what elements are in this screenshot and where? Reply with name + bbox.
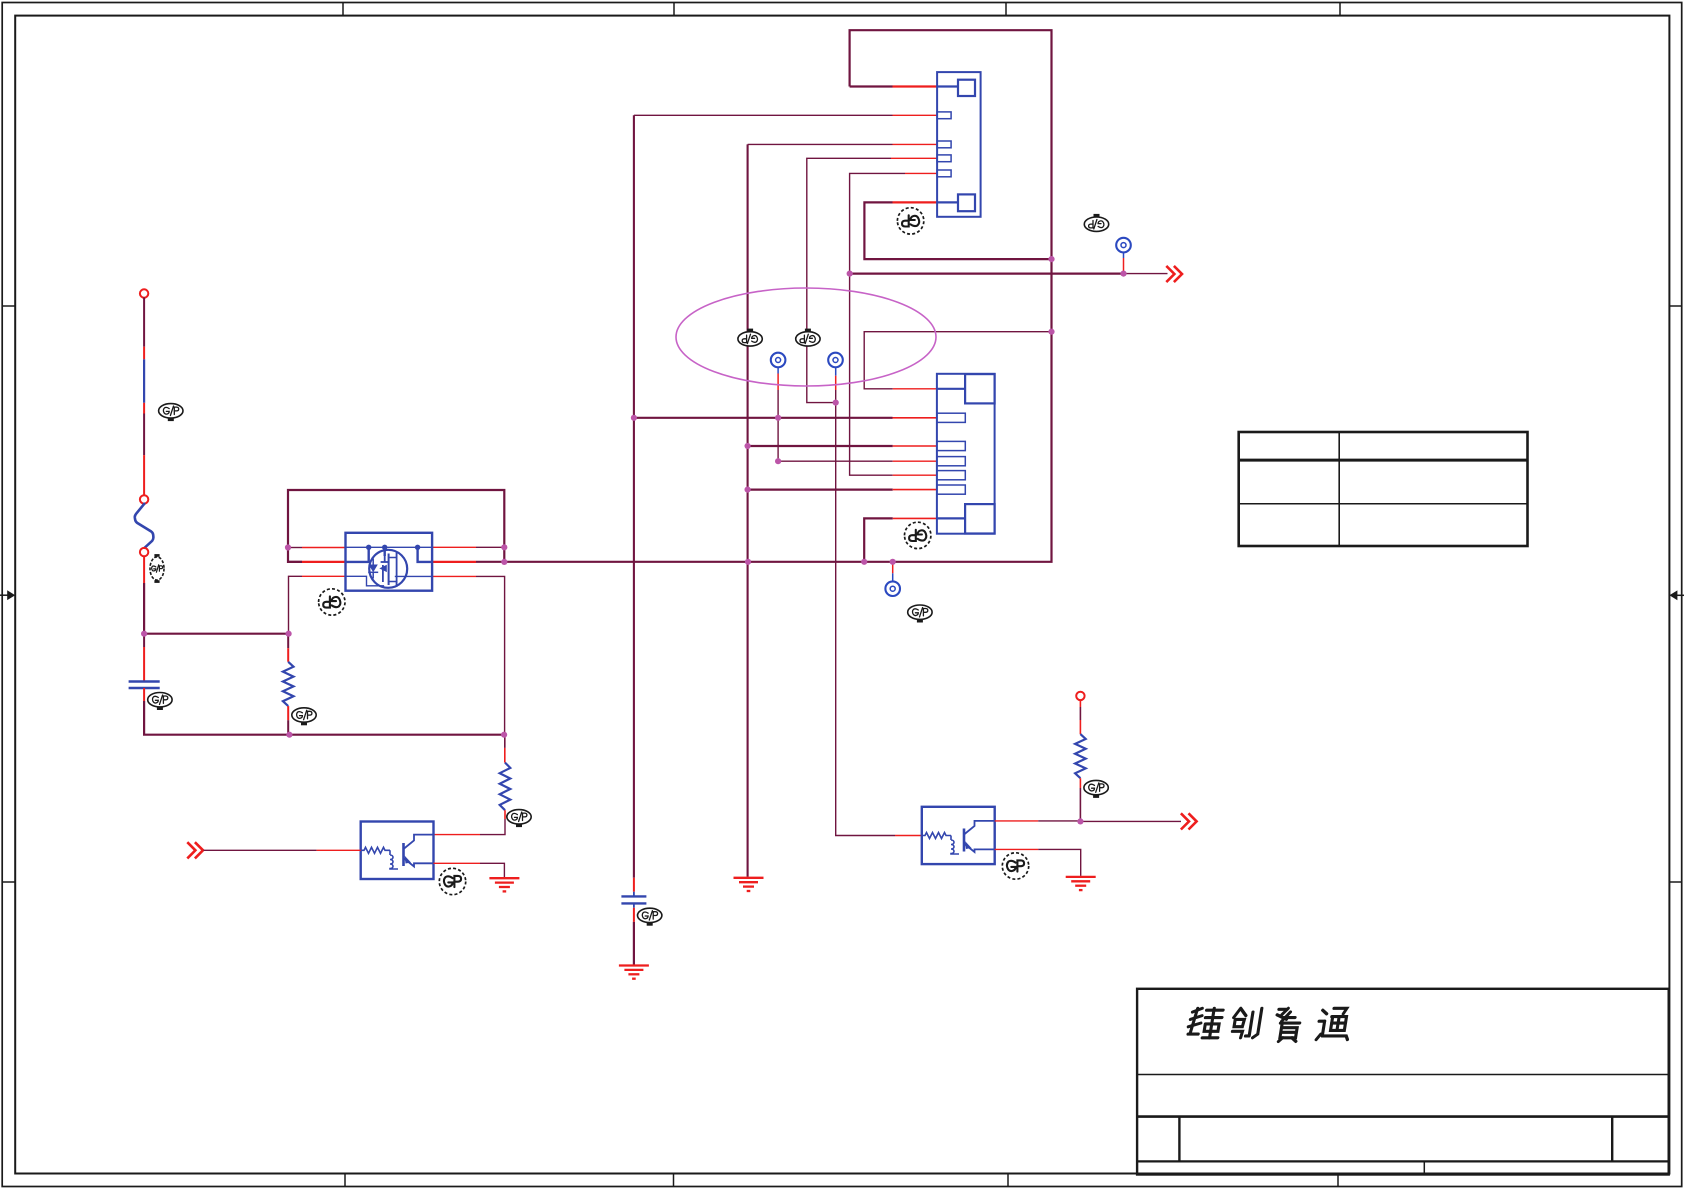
test point TP2 [828,353,843,368]
wire J2 pin3 net y=446 [748,445,893,447]
wire capacitor C1 top stub [143,634,145,647]
wire pin stub J2 pin5 (red) [893,474,937,476]
node right bus / J2 pin1 loop [1048,329,1054,335]
wire output net 2 [1080,820,1181,822]
transistor Q1 (mosfet module) [346,533,433,591]
label G/P near TP3 [1084,214,1108,232]
wire pin stub J2 pin7 (red) [893,517,937,519]
ground U1 emitter [489,878,519,891]
label G/P vertical [150,554,164,583]
wire U2 collector to node [1038,820,1080,822]
zone tick top 1 [342,3,344,16]
node mosfet row1 right [501,544,507,550]
wire resistor R1 bottom stub [287,706,289,720]
wire pin stub mosfet row2 right (red) [432,561,476,563]
label GP optocoupler U2 [1002,853,1028,879]
wire TP2 node down to optocoupler U2 input [836,390,895,836]
off-page input arrow [187,842,203,858]
wire vertical bus x=748 [747,144,749,876]
wire capacitor C2 top stub [633,878,635,892]
zone tick bottom 2 [673,1174,675,1187]
resistor R3 [1075,734,1086,778]
wire pin stub J2 pin3 (red) [893,445,937,447]
zone tick top 4 [1339,3,1341,16]
node R2 / bus y=735 [501,732,507,738]
ground net x=748 [734,878,764,891]
zone tick bottom 1 [344,1174,346,1187]
node J2 pin2 / bus x=634 [631,415,637,421]
wire mosfet row2 left [288,561,302,563]
mid-sheet arrow right border [1669,590,1684,600]
wire resistor R1 top stub [287,634,289,649]
wire test point 2 stub [835,367,837,375]
node J2 pin3 / bus x=748 [745,443,751,449]
wire output net 1 tail [1124,273,1168,275]
node R1 / bus y=735 [286,732,292,738]
wire resistor R2 top stub [504,735,506,748]
label G/P capacitor C2 [638,908,662,926]
wire resistor R2 bottom stub [504,810,506,819]
label G/P left column [159,404,183,422]
wire mosfet row3 left down [289,576,303,633]
terminal T1 [140,289,148,297]
node row y=632 left [141,631,147,637]
wire left column top [143,297,145,346]
wire input net to U1 [204,849,317,851]
resistor R1 [283,662,294,706]
wire upper loop and right bus down to horizontal bus [476,30,1052,562]
wire pin stub J2 pin6 (red) [893,489,937,491]
wire mosfet row1 left [288,547,302,549]
node TP3 / output net 1 [1120,271,1126,277]
label G/P resistor R1 [292,708,316,726]
test point TP4 [885,581,900,596]
wire J2 pin4 net y=461 [778,460,893,462]
node TP1 / net y=418 [775,415,781,421]
wire U1 emitter to ground [480,863,504,877]
wire J2 pin6 net y=490 [748,489,893,491]
title block [1137,989,1669,1175]
zone tick left 1 [2,305,15,307]
label G/P on net x=807 [796,329,820,347]
zone tick left 2 [2,881,15,883]
wire J2 pin1 loop to right bus [864,332,1051,389]
node J2 pin6 / bus x=748 [745,487,751,493]
label G/P capacitor C1 [148,693,172,711]
optocoupler U1 [361,822,434,880]
wire pin stub U2 emitter (red) [995,848,1038,850]
wire pin stub U1 input (red) [317,849,361,851]
label G/P resistor R2 [507,810,531,828]
connector J2 [937,374,995,534]
node TP1 chain / J2 pin4 net [775,458,781,464]
resistor R2 [500,763,511,811]
wire junction row y=632 [144,633,289,635]
label GP optocoupler U1 [439,868,465,894]
label GP mosfet Q1 [319,589,345,615]
wire pin stub U2 collector (red) [995,820,1038,822]
wire pin stub mosfet row1 right (red) [432,546,476,548]
wire J1 pin4 down to node at test point 2 [807,158,891,402]
wire J1 pin5 down to J2 pin5 [850,173,905,475]
wire loop around mosfet [288,490,504,562]
revision table [1239,432,1528,546]
label G/P resistor R3 [1084,780,1108,798]
wire T3 down to junction [143,556,145,583]
ground U2 emitter [1066,877,1096,890]
wire R2 to optocoupler U1 collector [480,819,505,835]
ground capacitor C2 [619,966,649,979]
zone tick bottom 3 [1007,1174,1009,1187]
zone tick right 2 [1669,881,1682,883]
wire test point 4 stub [892,563,894,573]
node row y=632 right [286,631,292,637]
wire bottom bus y=735 [144,701,504,735]
wire pin stub mosfet row3 right (red) [432,575,476,577]
wire resistor R3 bottom stub [1079,778,1081,788]
wire capacitor C1 bottom stub [143,688,145,701]
wire J1 pin3 horizontal [748,143,893,145]
wire mosfet row3 right down [476,576,505,734]
test point TP1 [771,353,786,368]
wire output net 1 [850,273,1124,275]
node bus y=562 / bus x=748 [745,559,751,565]
wire pin stub J1 pin5 (red) [905,172,937,174]
node TP2 / J1 pin4 net [833,400,839,406]
wire capacitor C2 bottom stub [633,903,635,907]
terminal T2 [140,495,148,503]
node R3 / output net 2 [1077,818,1083,824]
wire pin stub U1 emitter (red) [434,862,481,864]
wire test point 3 stub [1123,258,1125,271]
inductor F1 (s-curve) [135,504,154,548]
highlight ellipse [676,288,936,386]
mid-sheet arrow left border [0,590,15,600]
node TP4 / bus y=562 [890,559,896,565]
wire pin stub J1 pin6 (red) [893,201,938,203]
label G/P on net x=748 [738,329,762,347]
node right bus / J1 pin6 loop [1048,256,1054,262]
wire pin stub J1 pin1 (red) [893,85,938,87]
optocoupler U2 [922,807,995,864]
terminal T3 [140,548,148,556]
label G/P near TP4 [908,605,932,623]
wire test point 1 stub [777,367,779,373]
node output net 1 [847,271,853,277]
zone tick bottom 4 [1337,1174,1339,1187]
wire pin stub mosfet row3 left (red) [302,575,346,577]
wire pin stub J2 pin2 (red) [893,417,937,419]
wire pin stub mosfet row1 left (red) [302,547,346,549]
off-page output arrow 2 [1181,813,1197,829]
off-page output arrow 1 [1166,266,1182,282]
wire pin stub J2 pin4 (red) [893,460,937,462]
wire pin stub J2 pin1 (red) [893,388,937,390]
test point TP3 [1116,238,1131,253]
wire connector J1 pin1 segment [850,85,893,87]
zone tick right 1 [1669,305,1682,307]
wire mosfet row1 right [476,546,504,548]
capacitor C1 [129,682,160,689]
wire J1 pin2 horizontal [634,114,893,116]
node mosfet row2 right [501,559,507,565]
wire pin stub J1 pin2 (red) [893,114,938,116]
wire resistor R3 top stub [1079,700,1081,707]
connector J1 [937,72,981,217]
wire pin stub J1 pin3 (red) [893,143,938,145]
wire pin stub U2 input (red) [895,835,922,837]
terminal T4 [1076,692,1084,700]
wire vertical bus x=634 [633,115,635,878]
wire U2 emitter to ground [1038,849,1081,876]
wire J2 pin7 down to bus [864,518,893,561]
label GP connector J2 [905,522,931,548]
wire J1 pin6 loop to right bus [864,202,1051,259]
wire pin stub mosfet row2 left (red) [302,561,346,563]
wire J2 pin2 net y=418 [634,417,893,419]
zone tick top 3 [1005,3,1007,16]
label GP connector J1 [897,208,923,234]
wire pin stub J1 pin4 (red) [891,157,937,159]
capacitor C2 [621,896,646,903]
node mosfet row1 left [285,544,291,550]
node J2 pin7 / bus y=562 [861,559,867,565]
wire pin stub U1 collector (red) [434,834,481,836]
company logo text (Wistron) [1186,1008,1352,1041]
zone tick top 2 [673,3,675,16]
